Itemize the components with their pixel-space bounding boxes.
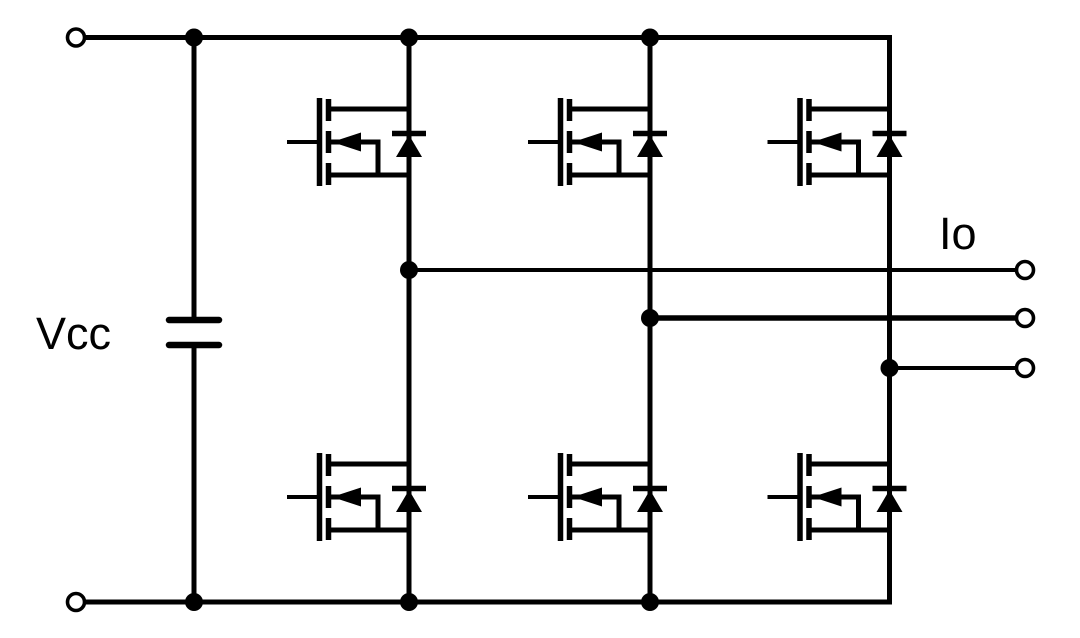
- terminal: output phase C: [1017, 360, 1034, 377]
- svg-text:Vcc: Vcc: [36, 308, 111, 359]
- diode D6 (body diode of Q6): [873, 489, 907, 513]
- junction: phase A leg to top rail: [400, 29, 418, 47]
- wire: phase A leg: [407, 38, 412, 603]
- transistor Q2 (low-side MOSFET, phase A): [287, 453, 409, 541]
- terminal: output phase A: [1017, 262, 1034, 279]
- svg-text:Io: Io: [939, 208, 977, 259]
- wire: capacitor branch upper lead: [192, 38, 197, 321]
- wire: phase C leg: [887, 38, 892, 603]
- capacitor C1 (DC bus capacitor): [169, 320, 219, 345]
- transistor Q5 (high-side MOSFET, phase C): [768, 98, 890, 186]
- terminal: output phase B: [1017, 310, 1034, 327]
- junction: cap to bottom rail: [185, 593, 203, 611]
- wire: phase A output: [409, 268, 1016, 272]
- junction: phase C midpoint node: [881, 359, 899, 377]
- diode D5 (body diode of Q5): [873, 134, 907, 158]
- transistor Q1 (high-side MOSFET, phase A): [287, 98, 409, 186]
- junction: cap to top rail: [185, 29, 203, 47]
- diode D2 (body diode of Q2): [392, 489, 426, 513]
- wire: capacitor branch lower lead: [192, 345, 197, 602]
- transistor Q3 (high-side MOSFET, phase B): [528, 98, 650, 186]
- diode D4 (body diode of Q4): [633, 489, 667, 513]
- junction: phase A midpoint node: [400, 261, 418, 279]
- diode D3 (body diode of Q3): [633, 134, 667, 158]
- wire: top DC bus (+) rail: [86, 35, 892, 40]
- terminal: Vcc negative input: [68, 594, 85, 611]
- junction: phase B leg to bottom rail: [641, 593, 659, 611]
- transistor Q6 (low-side MOSFET, phase C): [768, 453, 890, 541]
- transistor Q4 (low-side MOSFET, phase B): [528, 453, 650, 541]
- wire: phase B leg: [648, 38, 653, 603]
- diode D1 (body diode of Q1): [392, 134, 426, 158]
- wire: bottom DC bus (-) rail: [86, 600, 892, 605]
- junction: phase A leg to bottom rail: [400, 593, 418, 611]
- wire: phase C output: [890, 366, 1017, 370]
- terminal: Vcc positive input: [68, 29, 85, 46]
- junction: phase B leg to top rail: [641, 29, 659, 47]
- junction: phase B midpoint node: [641, 309, 659, 327]
- wire: phase B output: [650, 315, 1016, 321]
